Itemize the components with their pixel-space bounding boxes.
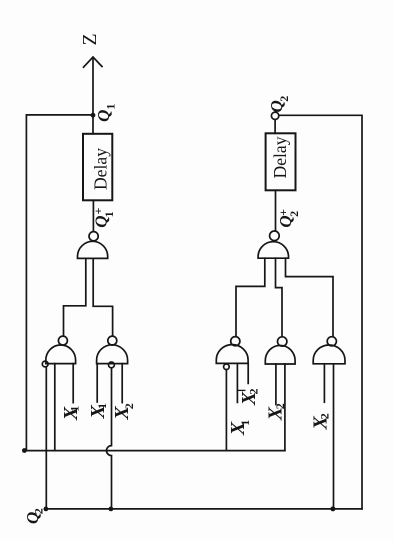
svg-text:2: 2	[247, 389, 261, 395]
svg-text:1: 1	[102, 211, 116, 217]
svg-text:Q: Q	[94, 110, 113, 122]
svg-text:2: 2	[277, 96, 291, 102]
svg-text:Delay: Delay	[91, 148, 111, 190]
svg-text:Z: Z	[80, 33, 101, 45]
svg-text:2: 2	[32, 508, 46, 514]
svg-text:2: 2	[317, 413, 331, 419]
svg-text:1: 1	[238, 420, 252, 426]
svg-text:2: 2	[287, 211, 301, 217]
svg-text:1: 1	[104, 104, 118, 110]
svg-text:2: 2	[273, 403, 287, 409]
svg-text:1: 1	[67, 406, 81, 412]
svg-text:2: 2	[122, 403, 136, 409]
svg-text:1: 1	[95, 403, 109, 409]
svg-text:Delay: Delay	[270, 136, 290, 178]
